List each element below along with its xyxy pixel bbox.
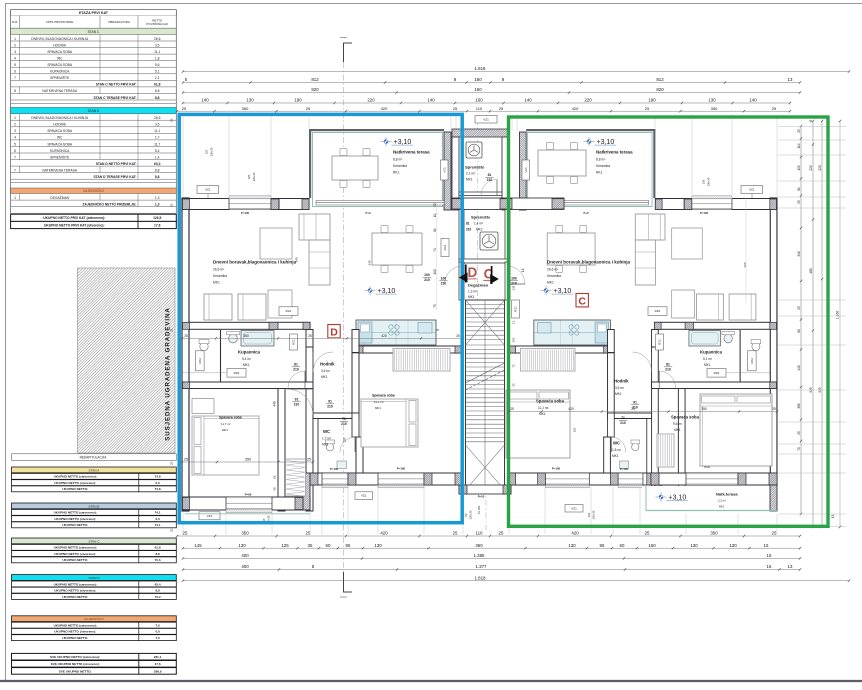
svg-text:MK1: MK1 xyxy=(243,363,250,367)
svg-text:ZAJEDNIČKO: ZAJEDNIČKO xyxy=(84,616,104,621)
svg-text:REKAPITULACIJA: REKAPITULACIJA xyxy=(80,456,108,460)
svg-text:2,2 m²: 2,2 m² xyxy=(718,499,726,503)
svg-text:1,8 m²: 1,8 m² xyxy=(612,448,621,452)
svg-text:SPAVAĆA SOBA: SPAVAĆA SOBA xyxy=(47,128,73,133)
svg-text:1,4 m²: 1,4 m² xyxy=(474,222,483,226)
svg-text:35: 35 xyxy=(308,543,313,548)
svg-text:WC: WC xyxy=(613,441,620,446)
svg-text:25,: 25, xyxy=(170,203,174,207)
sofa xyxy=(635,214,665,240)
svg-text:2,1 m²: 2,1 m² xyxy=(466,172,475,176)
svg-text:RZ1: RZ1 xyxy=(443,244,447,250)
svg-text:25: 25 xyxy=(772,106,777,111)
svg-text:RZ1: RZ1 xyxy=(286,309,292,313)
svg-text:420: 420 xyxy=(381,106,388,111)
svg-text:5,4: 5,4 xyxy=(155,149,160,153)
left apartment exterior wall west xyxy=(182,198,189,511)
svg-text:Keramika: Keramika xyxy=(596,164,610,168)
wc walls xyxy=(313,413,359,419)
svg-text:SVE UKUPNO NETTO:: SVE UKUPNO NETTO: xyxy=(59,669,92,673)
svg-text:P=100: P=100 xyxy=(700,211,709,215)
svg-text:340: 340 xyxy=(797,251,801,257)
svg-text:91 193: 91 193 xyxy=(477,505,481,513)
south exterior wall protruding bedroom xyxy=(654,497,777,510)
svg-text:130: 130 xyxy=(729,543,737,548)
svg-text:Spremište: Spremište xyxy=(471,215,491,220)
right dimension columns xyxy=(800,126,802,514)
svg-text:SPREMIŠTE: SPREMIŠTE xyxy=(50,75,70,80)
svg-text:3: 3 xyxy=(14,50,16,54)
svg-text:420: 420 xyxy=(380,531,388,536)
interior dim chain left apartment xyxy=(182,337,463,339)
wardrobe right bedroom xyxy=(520,349,575,372)
svg-text:25: 25 xyxy=(797,129,801,133)
svg-text:72: 72 xyxy=(512,364,516,368)
svg-text:NATKRIVENA TERASA: NATKRIVENA TERASA xyxy=(42,89,77,93)
svg-text:25: 25 xyxy=(797,306,801,310)
svg-text:210: 210 xyxy=(424,278,430,282)
svg-text:5,1 m²: 5,1 m² xyxy=(703,357,712,361)
svg-text:UKUPNO NETTO:: UKUPNO NETTO: xyxy=(62,523,88,527)
svg-text:140: 140 xyxy=(749,98,757,103)
svg-text:210: 210 xyxy=(511,282,517,286)
svg-text:70: 70 xyxy=(797,447,801,451)
svg-text:MK1: MK1 xyxy=(375,406,381,410)
svg-text:190: 190 xyxy=(294,98,302,103)
wall kitchen side of hall xyxy=(608,330,615,353)
wardrobe right bedroom xyxy=(393,349,450,372)
svg-text:7: 7 xyxy=(14,76,16,80)
svg-text:25,: 25, xyxy=(170,528,174,532)
svg-text:KUPAONICA: KUPAONICA xyxy=(50,70,70,74)
bathroom south wall xyxy=(182,382,313,389)
svg-text:25: 25 xyxy=(510,407,514,411)
sofa xyxy=(299,214,330,240)
south wall central part xyxy=(310,473,463,485)
svg-text:26,6 m²: 26,6 m² xyxy=(547,268,559,272)
svg-text:820: 820 xyxy=(311,87,319,92)
svg-text:D: D xyxy=(330,326,338,338)
svg-text:WC: WC xyxy=(57,136,63,140)
svg-text:VZ1: VZ1 xyxy=(749,188,755,192)
svg-text:2,1: 2,1 xyxy=(155,76,160,80)
svg-text:VZ1: VZ1 xyxy=(524,167,528,173)
svg-text:0,0: 0,0 xyxy=(155,630,160,634)
svg-text:0,0: 0,0 xyxy=(155,481,160,485)
svg-text:60: 60 xyxy=(620,543,625,548)
svg-text:1,3 m²: 1,3 m² xyxy=(468,289,477,293)
svg-text:STAN D: STAN D xyxy=(88,109,100,113)
wall below kitchen xyxy=(508,346,610,353)
svg-text:SPAVAĆA SOBA: SPAVAĆA SOBA xyxy=(47,141,73,146)
svg-text:UKUPNO NETTO PRVI KAT (zatvore: UKUPNO NETTO PRVI KAT (zatvoreno): xyxy=(43,216,105,220)
bed right bedroom xyxy=(361,399,418,447)
hall door to living room xyxy=(651,352,653,372)
svg-text:71: 71 xyxy=(342,417,346,421)
svg-text:1: 1 xyxy=(14,196,16,200)
table: REKAPITULACIJA summary xyxy=(12,454,177,461)
svg-text:VZ1: VZ1 xyxy=(483,117,489,121)
svg-text:11,1 m²: 11,1 m² xyxy=(374,400,384,404)
svg-text:17,6: 17,6 xyxy=(154,223,161,227)
svg-text:25: 25 xyxy=(182,106,187,111)
svg-text:11,7 m²: 11,7 m² xyxy=(221,422,231,426)
svg-text:MK1: MK1 xyxy=(539,412,546,416)
svg-text:130: 130 xyxy=(702,179,706,184)
svg-text:11,1 m²: 11,1 m² xyxy=(538,406,549,410)
svg-text:95: 95 xyxy=(600,543,605,548)
natk terasa teal border xyxy=(646,510,777,512)
upper spremiste door xyxy=(496,180,498,196)
svg-text:60: 60 xyxy=(326,543,331,548)
hall vertical walls xyxy=(306,347,313,511)
thin leader lines bottom xyxy=(182,512,184,534)
svg-text:45: 45 xyxy=(273,487,277,491)
svg-text:MK1: MK1 xyxy=(213,281,220,285)
svg-text:420: 420 xyxy=(381,334,387,338)
svg-text:R.B.: R.B. xyxy=(12,20,18,24)
svg-text:120+20: 120+20 xyxy=(592,510,596,519)
svg-text:P=55: P=55 xyxy=(478,495,485,499)
svg-text:+3,10: +3,10 xyxy=(394,139,412,146)
svg-text:1.377: 1.377 xyxy=(476,564,488,569)
svg-text:61,8: 61,8 xyxy=(154,83,161,87)
svg-text:400: 400 xyxy=(241,553,249,558)
svg-text:5,4 m²: 5,4 m² xyxy=(242,357,251,361)
svg-text:26,6: 26,6 xyxy=(154,116,161,120)
svg-text:81: 81 xyxy=(294,363,298,367)
tv cabinet xyxy=(260,228,292,259)
svg-text:UKUPNO NETTO PRVI KAT (otvoren: UKUPNO NETTO PRVI KAT (otvoreno): xyxy=(44,223,105,227)
svg-text:350: 350 xyxy=(245,458,251,462)
hatched area susjedna ugradena gradevina xyxy=(78,268,176,453)
svg-text:8,8: 8,8 xyxy=(155,96,160,100)
svg-text:3,5: 3,5 xyxy=(155,43,160,47)
svg-text:HODNIK: HODNIK xyxy=(53,43,67,47)
svg-text:60: 60 xyxy=(797,329,801,333)
svg-text:Kupaonica: Kupaonica xyxy=(700,350,723,355)
terrace dining table xyxy=(340,149,347,156)
svg-text:26,6: 26,6 xyxy=(154,37,161,41)
svg-text:VZ1: VZ1 xyxy=(571,506,577,510)
svg-text:7: 7 xyxy=(14,155,16,159)
svg-text:70,6: 70,6 xyxy=(155,558,161,562)
svg-text:3: 3 xyxy=(14,129,16,133)
svg-text:SVE UKUPNO NETTO (otvoreno):: SVE UKUPNO NETTO (otvoreno): xyxy=(51,662,100,666)
svg-text:91: 91 xyxy=(295,398,299,402)
overall height dim 1.166 xyxy=(839,121,841,527)
svg-text:135: 135 xyxy=(512,285,516,290)
svg-text:Spavaća soba: Spavaća soba xyxy=(372,394,395,398)
svg-text:210: 210 xyxy=(665,368,671,372)
wc walls xyxy=(608,413,652,419)
svg-text:71: 71 xyxy=(621,416,625,420)
bathroom fixtures xyxy=(229,334,238,343)
natk terasa east wall xyxy=(770,485,777,511)
svg-text:350: 350 xyxy=(711,106,718,111)
wall left of hallway xyxy=(652,330,659,348)
svg-text:195: 195 xyxy=(797,165,801,171)
svg-text:360: 360 xyxy=(743,262,747,267)
svg-text:125: 125 xyxy=(281,543,289,548)
svg-text:1,4: 1,4 xyxy=(155,155,160,159)
hall vertical walls xyxy=(652,347,659,511)
svg-text:1,8: 1,8 xyxy=(155,57,160,61)
svg-text:1,7 m²: 1,7 m² xyxy=(322,437,331,441)
svg-text:25: 25 xyxy=(645,106,650,111)
svg-text:25: 25 xyxy=(499,106,504,111)
section dashed line xyxy=(343,62,345,572)
svg-text:1.818: 1.818 xyxy=(475,575,487,580)
svg-text:25: 25 xyxy=(645,531,650,536)
svg-text:Dnevni boravak,blagovaonica i: Dnevni boravak,blagovaonica i kuhinja xyxy=(547,260,631,265)
svg-text:2: 2 xyxy=(14,43,16,47)
table: ETAZA PRVI KAT schedule xyxy=(11,10,177,16)
shaft ventilation unit xyxy=(466,142,482,158)
svg-text:350: 350 xyxy=(701,407,707,411)
svg-text:150: 150 xyxy=(205,149,209,154)
hall door to living room xyxy=(312,352,314,372)
svg-text:11,1: 11,1 xyxy=(154,50,160,54)
svg-text:UKUPNO NETTO:: UKUPNO NETTO: xyxy=(62,487,88,491)
svg-text:210: 210 xyxy=(620,421,626,425)
central shaft walls xyxy=(452,129,509,137)
svg-text:UKUPNO NETTO (zatvoreno):: UKUPNO NETTO (zatvoreno): xyxy=(54,475,97,479)
svg-text:220+20: 220+20 xyxy=(252,172,256,181)
svg-text:ZAJEDNIČKO NETTO PRIZEMLJE:: ZAJEDNIČKO NETTO PRIZEMLJE: xyxy=(83,201,137,206)
svg-text:72,2: 72,2 xyxy=(155,595,161,599)
svg-text:13,: 13, xyxy=(521,268,525,273)
svg-text:MK1: MK1 xyxy=(468,295,475,299)
svg-text:281,1: 281,1 xyxy=(154,655,162,659)
dining table xyxy=(580,226,587,233)
svg-text:25: 25 xyxy=(772,407,776,411)
svg-text:RZ2: RZ2 xyxy=(750,358,754,364)
teal edge below left apartment bedroom xyxy=(185,513,310,515)
svg-text:160: 160 xyxy=(475,98,483,103)
svg-text:MK1: MK1 xyxy=(704,363,711,367)
bedroom interior dim chain xyxy=(182,461,313,463)
svg-text:1.166: 1.166 xyxy=(836,311,840,320)
svg-text:13,: 13, xyxy=(512,320,516,324)
svg-text:UKUPNO NETTO (otvoreno):: UKUPNO NETTO (otvoreno): xyxy=(54,552,96,556)
svg-text:WC: WC xyxy=(57,57,63,61)
svg-text:P=160: P=160 xyxy=(397,466,406,470)
svg-text:25: 25 xyxy=(307,458,311,462)
right apt interior dims xyxy=(509,411,777,413)
svg-text:UKUPNO NETTO:: UKUPNO NETTO: xyxy=(62,595,88,599)
right apartment terrace table xyxy=(547,143,554,150)
bathroom niche wall xyxy=(739,330,741,383)
svg-text:74,1: 74,1 xyxy=(155,511,161,515)
svg-text:210: 210 xyxy=(341,422,347,426)
svg-text:2: 2 xyxy=(14,123,16,127)
svg-text:SPREMIŠTE: SPREMIŠTE xyxy=(50,154,70,159)
svg-text:SUSJEDNA UGRADENA GRADEVINA: SUSJEDNA UGRADENA GRADEVINA xyxy=(165,307,172,441)
svg-text:MK1: MK1 xyxy=(615,392,622,396)
svg-text:25,: 25, xyxy=(273,475,277,479)
svg-text:OBRADA PODA: OBRADA PODA xyxy=(108,20,130,24)
svg-text:130: 130 xyxy=(568,543,576,548)
svg-text:61,8: 61,8 xyxy=(155,546,161,550)
svg-text:8,8: 8,8 xyxy=(155,169,160,173)
svg-text:130: 130 xyxy=(690,543,698,548)
svg-text:MK1: MK1 xyxy=(321,375,328,379)
svg-text:74,8: 74,8 xyxy=(155,475,161,479)
svg-text:UKUPNO NETTO (zatvoreno):: UKUPNO NETTO (zatvoreno): xyxy=(54,511,97,515)
svg-text:1,3: 1,3 xyxy=(155,196,160,200)
svg-text:25: 25 xyxy=(453,106,458,111)
svg-text:UKUPNO NETTO (otvoreno):: UKUPNO NETTO (otvoreno): xyxy=(54,630,96,634)
svg-text:480: 480 xyxy=(809,268,813,274)
svg-text:210: 210 xyxy=(466,228,472,232)
svg-text:360: 360 xyxy=(242,106,249,111)
svg-text:15: 15 xyxy=(767,564,772,569)
armchairs and side table xyxy=(204,294,232,320)
right apartment closet strip xyxy=(657,434,674,467)
page border xyxy=(5,3,862,5)
svg-text:26,6 m²: 26,6 m² xyxy=(213,268,225,272)
svg-text:25: 25 xyxy=(183,531,188,536)
svg-text:110: 110 xyxy=(476,531,484,536)
reference mark top xyxy=(344,43,353,62)
blue outline stan D xyxy=(179,114,462,522)
svg-text:Hodnik: Hodnik xyxy=(614,379,629,384)
svg-text:POVRŠINA(m2): POVRŠINA(m2) xyxy=(146,21,168,26)
vz rz boxes xyxy=(197,186,219,194)
svg-text:C: C xyxy=(578,295,586,307)
svg-text:130: 130 xyxy=(587,512,591,517)
svg-text:5,1: 5,1 xyxy=(155,70,160,74)
svg-text:25: 25 xyxy=(184,334,188,338)
bathroom niche wall xyxy=(220,330,222,383)
svg-text:MK1: MK1 xyxy=(222,428,228,432)
svg-text:7,0: 7,0 xyxy=(155,636,160,640)
svg-text:1,3: 1,3 xyxy=(155,202,160,206)
svg-text:UKUPNO NETTO (otvoreno):: UKUPNO NETTO (otvoreno): xyxy=(54,589,96,593)
svg-text:220: 220 xyxy=(367,98,375,103)
wall kitchen side of hall xyxy=(352,330,359,353)
svg-text:160: 160 xyxy=(474,87,482,92)
bed left bedroom xyxy=(192,416,259,475)
svg-text:75: 75 xyxy=(433,304,437,308)
wardrobe wall bedroom west xyxy=(678,389,685,512)
svg-text:P=96: P=96 xyxy=(245,492,252,496)
kitchen counter xyxy=(534,320,611,345)
svg-text:1: 1 xyxy=(14,37,16,41)
svg-text:140: 140 xyxy=(201,98,209,103)
svg-text:DNEVNI, BLAGOVAONICA I KUHINJA: DNEVNI, BLAGOVAONICA I KUHINJA xyxy=(31,116,89,120)
svg-text:KUPAONICA: KUPAONICA xyxy=(50,149,70,153)
svg-text:350: 350 xyxy=(710,531,718,536)
svg-text:VZ1: VZ1 xyxy=(361,494,367,498)
svg-text:Degažman: Degažman xyxy=(468,282,489,287)
svg-text:4: 4 xyxy=(14,136,16,140)
svg-text:350: 350 xyxy=(243,334,249,338)
svg-text:340: 340 xyxy=(295,257,299,262)
svg-text:63,4: 63,4 xyxy=(155,582,161,586)
svg-text:P+0: P+0 xyxy=(583,211,588,215)
svg-text:3,6 m²: 3,6 m² xyxy=(321,369,330,373)
svg-text:160: 160 xyxy=(648,543,656,548)
svg-text:P=100: P=100 xyxy=(241,211,250,215)
svg-text:8,8 m²: 8,8 m² xyxy=(393,158,403,162)
svg-text:P=100: P=100 xyxy=(620,467,629,471)
svg-text:HODNIK: HODNIK xyxy=(53,123,67,127)
svg-text:100: 100 xyxy=(441,277,447,281)
right dim leader lines xyxy=(778,126,846,128)
right apartment mirrored geometry xyxy=(508,129,777,513)
svg-text:81: 81 xyxy=(488,173,492,177)
svg-text:OPIS PROSTORIJE: OPIS PROSTORIJE xyxy=(46,20,73,24)
terrace sliding door xyxy=(526,201,649,206)
svg-text:STAN C TERASE PRVI KAT:: STAN C TERASE PRVI KAT: xyxy=(93,96,136,100)
right apartment bed east bedroom xyxy=(700,394,772,466)
svg-text:25: 25 xyxy=(456,334,460,338)
right bedroom west wall xyxy=(356,437,363,473)
svg-text:63,4: 63,4 xyxy=(154,162,161,166)
svg-text:130+20: 130+20 xyxy=(210,147,214,156)
step wall xyxy=(303,473,310,510)
svg-text:SVE UKUPNO NETTO (zatvoreno):: SVE UKUPNO NETTO (zatvoreno): xyxy=(50,655,100,659)
svg-text:1: 1 xyxy=(14,116,16,120)
svg-text:5: 5 xyxy=(14,142,16,146)
south exterior wall protruding bedroom xyxy=(182,497,310,510)
svg-text:220: 220 xyxy=(573,427,577,432)
south wall central part xyxy=(508,473,654,485)
svg-text:100: 100 xyxy=(512,337,516,342)
svg-text:25,: 25, xyxy=(170,328,174,332)
svg-text:130: 130 xyxy=(246,98,254,103)
svg-text:Keramika: Keramika xyxy=(393,164,407,168)
svg-text:420: 420 xyxy=(568,407,574,411)
svg-text:STAN C: STAN C xyxy=(88,539,100,543)
svg-text:15: 15 xyxy=(767,553,772,558)
svg-text:STAN D NETTO PRVI KAT:: STAN D NETTO PRVI KAT: xyxy=(96,162,137,166)
svg-text:25: 25 xyxy=(308,334,312,338)
terrace walls natkrivena terasa xyxy=(653,129,655,198)
svg-text:SPAVAĆA SOBA: SPAVAĆA SOBA xyxy=(47,62,73,67)
svg-text:STAN C NETTO PRVI KAT:: STAN C NETTO PRVI KAT: xyxy=(96,83,137,87)
svg-text:74: 74 xyxy=(433,248,437,252)
wall living/night zone xyxy=(654,322,770,329)
svg-text:25: 25 xyxy=(772,531,777,536)
wall left of hallway xyxy=(306,330,313,348)
svg-text:ETAŽA PRVI KAT: ETAŽA PRVI KAT xyxy=(79,10,109,15)
svg-text:UKUPNO NETTO:: UKUPNO NETTO: xyxy=(62,558,88,562)
svg-text:Keramika: Keramika xyxy=(213,274,227,278)
stairwell xyxy=(466,300,505,490)
svg-text:Natk.terasa: Natk.terasa xyxy=(716,492,738,497)
svg-text:340: 340 xyxy=(368,260,372,265)
svg-text:VZ1: VZ1 xyxy=(207,514,213,518)
svg-text:95: 95 xyxy=(346,543,351,548)
step wall xyxy=(654,473,661,510)
svg-text:3,5: 3,5 xyxy=(155,123,160,127)
boxed section letter D xyxy=(328,325,340,338)
svg-text:0,0: 0,0 xyxy=(155,517,160,521)
svg-text:Kupaonica: Kupaonica xyxy=(238,350,261,355)
left bedroom door arc xyxy=(287,388,313,390)
svg-text:25: 25 xyxy=(453,531,458,536)
svg-text:91: 91 xyxy=(328,400,332,404)
tv cabinet xyxy=(672,228,703,259)
wc fixtures xyxy=(326,443,334,451)
svg-text:8,8: 8,8 xyxy=(155,552,160,556)
svg-text:8,8 m²: 8,8 m² xyxy=(596,158,606,162)
svg-text:100: 100 xyxy=(433,269,437,275)
svg-text:440: 440 xyxy=(797,365,801,371)
